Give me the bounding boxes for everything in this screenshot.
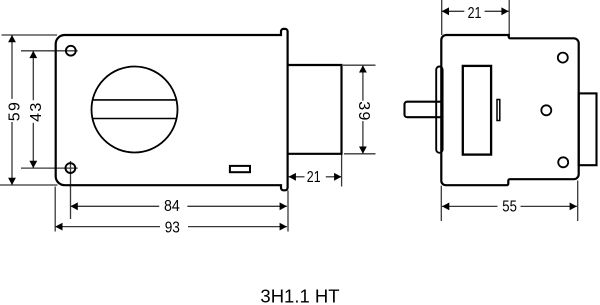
right view: extension line left for dim 21 top [441,0,443,35]
svg-text:59: 59 [6,101,23,122]
extension line bottom for dim 39 [344,153,376,155]
right view: bolt latch tab [405,102,436,118]
right view: extension line left for dim 55 [440,186,442,221]
right view: middle hole [541,105,551,115]
extension line through bottom hole for dim 43 [21,167,78,169]
extension line vertical right for dims 84 93 21 [287,191,289,232]
extension line vertical right of protrusion for dim 21 [341,154,343,187]
right view: extension line right for dim 55 [577,181,579,222]
left view: bottom screw hole [66,163,76,173]
right view: extension line right for dim 21 top [508,0,510,38]
dimension 55 line [442,205,498,207]
extension line top for dim 59 [2,34,58,36]
right view: small tick slot [497,100,500,121]
left view: small keyhole cover rectangle [230,166,250,172]
right view: top hole [558,53,568,63]
left view: lock body outline with face plate lip [56,29,288,190]
dimension 93 line [55,226,160,228]
svg-text:21: 21 [307,169,321,186]
right view: right side block [579,93,597,165]
extension line bottom for dim 59 [0,184,58,186]
extension line vertical through bottom hole for dim 84 [70,161,72,219]
right view: inner slot rectangle [463,66,491,155]
dimension 59 line [11,35,13,99]
extension line vertical left for dim 93 [54,187,56,232]
right view: body outline [441,35,578,185]
extension line top for dim 39 [343,64,376,66]
left view: rear case protrusion [288,65,342,154]
left view: top screw hole [66,46,76,56]
left view: knob circle [92,67,178,153]
svg-text:84: 84 [164,198,180,215]
extension line through top hole for dim 43 [21,50,78,52]
dimension 39 line [362,65,364,101]
right view: bottom hole [558,157,568,167]
dimension 21 top line [442,10,465,12]
svg-text:39: 39 [355,101,372,122]
right view: left flange strip [436,67,442,153]
dimension 84 line [71,205,160,207]
svg-text:21: 21 [468,5,482,22]
svg-text:93: 93 [165,220,180,237]
dimension 43 line [32,51,34,100]
svg-text:55: 55 [502,198,517,215]
right view: bolt lines through flange [436,101,442,103]
left view: knob slot lower chord [92,118,177,120]
svg-text:43: 43 [28,101,45,122]
svg-text:3H1.1 HT: 3H1.1 HT [260,286,339,305]
dimension 21 line under protrusion [289,176,305,178]
left view: knob slot upper chord [92,99,176,101]
